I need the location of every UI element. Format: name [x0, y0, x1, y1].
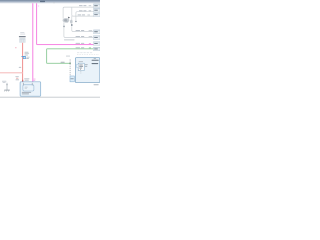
horn terminal 2 body [70, 20, 73, 24]
TIPM text right of sub-box [85, 63, 88, 66]
wire labels above w3 [78, 14, 82, 15]
TIPM pin text [94, 57, 96, 60]
connector C-box2 [94, 8, 101, 12]
wire w2 elbow [76, 12, 94, 21]
text above IPM [24, 77, 29, 80]
pink tag near wire top [38, 6, 39, 7]
module IPM box [20, 82, 41, 96]
connector bar (dark) [19, 36, 26, 37]
TIPM pin stub box [76, 65, 78, 68]
header title bar [0, 0, 100, 4]
wire green (box7 to TIPM branch) [47, 49, 94, 64]
ground symbol [4, 89, 10, 91]
connector C-box4 [94, 30, 101, 34]
wire pink B (vertical then right to box6) [37, 3, 94, 44]
terminal dot w2 [75, 21, 76, 22]
connector C-box6 [94, 42, 101, 46]
header text [40, 1, 45, 2]
connector C-box3 [94, 13, 101, 17]
wire labels above row2 [76, 36, 80, 37]
label red text left of wire [15, 47, 17, 48]
wire red horizontal (to left edge) [0, 72, 23, 74]
bottom frame line [0, 96, 100, 98]
lead down from horn left [63, 22, 65, 25]
small connector box bottom middle [70, 76, 74, 82]
component F-label text [20, 31, 24, 34]
wire row2 to box5 [64, 27, 94, 37]
wire branch down from top run [72, 7, 94, 16]
TIPM text above sub-box [79, 60, 83, 63]
pink PK label above IPM [33, 78, 36, 81]
wire continuation to terminal [71, 16, 73, 24]
node label S-text rows [25, 51, 29, 54]
fuse body icon [19, 39, 25, 43]
wire red vertical (battery feed) [22, 43, 24, 80]
splice node on green [69, 63, 71, 65]
TIPM title line1 [92, 60, 99, 61]
connector C-box7 [94, 47, 101, 51]
wire labels above row1 [76, 30, 80, 31]
label 15A near red wire [19, 67, 21, 68]
TIPM title line2 [92, 63, 99, 64]
fuse symbol inside IPM [23, 85, 34, 91]
ground lead wire [6, 83, 8, 90]
horn icon [63, 18, 70, 22]
label on green wire [61, 62, 65, 63]
fuse label block left of IPM [15, 75, 18, 78]
wire to C-box1 with corner to horn [63, 7, 94, 19]
connector label text [26, 56, 29, 59]
ground G text [2, 80, 6, 83]
label left of TIPM corner [66, 55, 70, 58]
module TIPM box [75, 58, 99, 83]
dashed lead to C-small box [69, 59, 71, 76]
IPM name text [22, 92, 31, 93]
wire labels above row3 pink [76, 43, 80, 44]
ground splice dot [6, 84, 7, 85]
small note below header [53, 1, 55, 4]
wire labels above row4 green [76, 47, 80, 48]
TIPM fuse sub-box [78, 63, 84, 70]
pin red terminal [22, 80, 23, 82]
C1 text below TIPM [94, 84, 99, 85]
pin terminal left [63, 26, 64, 28]
pin terminal right [71, 24, 72, 26]
connector pin labels near boxes [89, 4, 92, 7]
connector C-box5 [94, 36, 101, 40]
label above pink horizontal [64, 39, 75, 40]
connector C-box1 [94, 4, 101, 8]
inline connector on red wire [21, 55, 25, 57]
wire labels above w2 [79, 10, 83, 11]
TIPM lead below sub-box [80, 71, 82, 74]
wire pink A (vertical, to IPM) [32, 3, 34, 82]
dashed pin row above TIPM [77, 51, 79, 54]
wire labels above w1 [79, 5, 83, 6]
wire row1 to box4 [72, 26, 94, 31]
